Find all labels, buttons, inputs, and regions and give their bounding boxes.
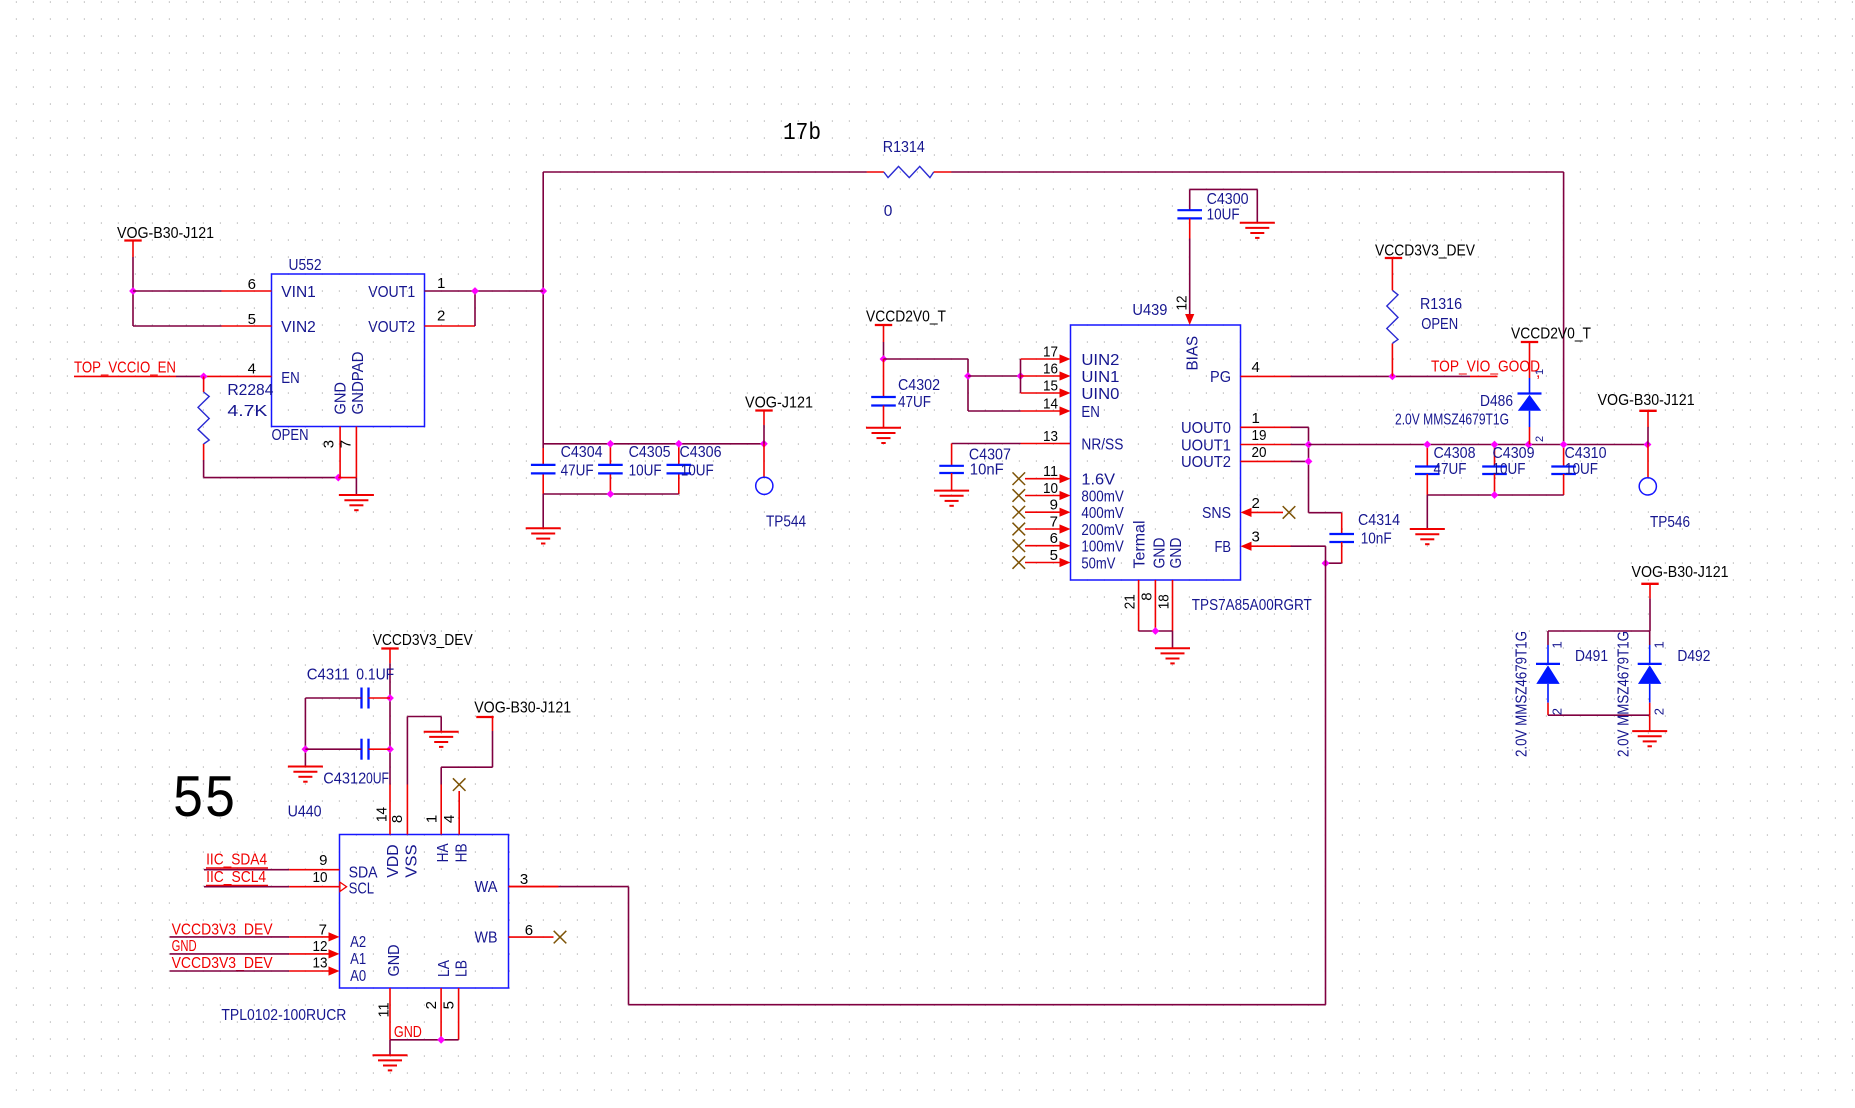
svg-text:SNS: SNS	[1202, 505, 1231, 522]
svg-text:1: 1	[1252, 410, 1260, 427]
svg-text:16: 16	[1043, 361, 1058, 378]
svg-text:800mV: 800mV	[1081, 488, 1124, 505]
svg-text:4: 4	[441, 815, 458, 823]
svg-text:VSS: VSS	[403, 844, 420, 877]
svg-text:D491: D491	[1575, 648, 1608, 665]
svg-text:VIN2: VIN2	[281, 319, 316, 336]
svg-text:GND: GND	[1152, 538, 1169, 569]
svg-text:GND: GND	[1168, 538, 1185, 569]
svg-text:19: 19	[1252, 427, 1267, 444]
svg-text:BIAS: BIAS	[1185, 336, 1202, 371]
svg-text:Termal: Termal	[1132, 521, 1149, 569]
svg-text:HA: HA	[435, 843, 452, 862]
svg-text:TP544: TP544	[766, 514, 806, 531]
svg-text:TP546: TP546	[1650, 514, 1690, 531]
svg-text:EN: EN	[281, 370, 300, 387]
svg-text:8: 8	[389, 815, 406, 823]
svg-text:WB: WB	[475, 930, 498, 947]
svg-text:HB: HB	[453, 843, 470, 862]
svg-text:VCCD3V3_DEV: VCCD3V3_DEV	[373, 632, 474, 649]
svg-text:13: 13	[1043, 428, 1058, 445]
svg-text:18: 18	[1156, 594, 1173, 609]
svg-text:2.0V MMSZ4679T1G: 2.0V MMSZ4679T1G	[1514, 631, 1531, 757]
svg-text:U440: U440	[288, 804, 322, 821]
svg-text:14: 14	[374, 807, 391, 822]
svg-text:GND: GND	[386, 945, 403, 977]
svg-text:0: 0	[884, 203, 893, 220]
svg-text:VCCD3V3_DEV: VCCD3V3_DEV	[1375, 243, 1476, 260]
svg-text:WA: WA	[475, 879, 498, 896]
svg-text:VIN1: VIN1	[281, 284, 316, 301]
svg-text:R1314: R1314	[883, 139, 925, 156]
svg-text:10UF: 10UF	[1565, 461, 1598, 478]
svg-text:1: 1	[1652, 641, 1667, 648]
svg-text:4: 4	[1252, 359, 1260, 376]
svg-text:UOUT0: UOUT0	[1181, 420, 1231, 437]
svg-text:D492: D492	[1677, 648, 1710, 665]
svg-text:VCCD3V3_DEV: VCCD3V3_DEV	[172, 922, 274, 939]
svg-text:SCL: SCL	[349, 881, 375, 898]
svg-text:7: 7	[319, 922, 327, 939]
svg-text:0UF: 0UF	[366, 771, 389, 788]
svg-text:OPEN: OPEN	[1421, 316, 1458, 333]
svg-text:OPEN: OPEN	[272, 427, 309, 444]
svg-text:U439: U439	[1132, 302, 1167, 319]
svg-text:VDD: VDD	[385, 844, 402, 877]
svg-text:10nF: 10nF	[970, 461, 1004, 478]
svg-text:C4300: C4300	[1207, 191, 1249, 208]
svg-text:5: 5	[1050, 547, 1058, 564]
svg-text:2: 2	[437, 308, 445, 325]
svg-text:17: 17	[1043, 344, 1058, 361]
svg-text:TPL0102-100RUCR: TPL0102-100RUCR	[221, 1007, 346, 1024]
svg-text:LA: LA	[436, 960, 453, 977]
svg-text:8: 8	[1139, 592, 1156, 600]
svg-text:12: 12	[313, 938, 328, 955]
svg-text:NR/SS: NR/SS	[1081, 436, 1123, 453]
svg-text:EN: EN	[1081, 404, 1100, 421]
svg-text:VOG-B30-J121: VOG-B30-J121	[1632, 564, 1729, 581]
svg-text:47UF: 47UF	[561, 463, 594, 480]
svg-text:10UF: 10UF	[681, 463, 714, 480]
svg-text:55: 55	[172, 767, 236, 835]
svg-text:VCCD2V0_T: VCCD2V0_T	[866, 309, 946, 326]
svg-text:VOG-B30-J121: VOG-B30-J121	[474, 700, 571, 717]
svg-text:VOUT2: VOUT2	[368, 319, 415, 336]
svg-text:A1: A1	[350, 951, 366, 968]
svg-text:SDA: SDA	[349, 865, 378, 882]
svg-text:GND: GND	[333, 382, 350, 415]
svg-text:11: 11	[1043, 463, 1058, 480]
svg-text:50mV: 50mV	[1081, 555, 1115, 572]
svg-text:A2: A2	[350, 934, 366, 951]
svg-text:2: 2	[423, 1001, 440, 1009]
svg-text:R2284: R2284	[227, 382, 273, 399]
svg-text:9: 9	[1050, 497, 1058, 514]
svg-text:FB: FB	[1215, 539, 1232, 556]
svg-text:400mV: 400mV	[1081, 505, 1124, 522]
svg-text:UIN0: UIN0	[1081, 386, 1119, 403]
svg-text:3: 3	[520, 871, 528, 888]
svg-text:6: 6	[525, 922, 533, 939]
svg-text:A0: A0	[350, 968, 366, 985]
svg-text:15: 15	[1043, 378, 1058, 395]
svg-text:2: 2	[1652, 708, 1667, 715]
svg-text:C4304: C4304	[561, 444, 603, 461]
svg-text:0.1UF: 0.1UF	[356, 667, 394, 684]
svg-text:3: 3	[1252, 529, 1260, 546]
svg-text:10nF: 10nF	[1361, 531, 1392, 548]
svg-text:13: 13	[313, 955, 328, 972]
svg-text:1: 1	[424, 815, 441, 823]
svg-text:U552: U552	[289, 257, 322, 274]
svg-text:C4306: C4306	[680, 444, 722, 461]
svg-text:5: 5	[248, 311, 256, 328]
svg-text:6: 6	[248, 276, 256, 293]
svg-text:10: 10	[1043, 480, 1058, 497]
svg-text:2: 2	[1550, 708, 1565, 715]
svg-text:200mV: 200mV	[1081, 522, 1124, 539]
svg-text:C4311: C4311	[307, 667, 350, 684]
svg-text:1: 1	[1550, 641, 1565, 648]
svg-text:VOUT1: VOUT1	[368, 284, 415, 301]
svg-text:2: 2	[1252, 495, 1260, 512]
svg-text:4.7K: 4.7K	[227, 403, 268, 420]
svg-text:9: 9	[319, 852, 327, 869]
svg-text:1: 1	[437, 275, 445, 292]
svg-text:GNDPAD: GNDPAD	[350, 352, 367, 415]
svg-text:12: 12	[1174, 296, 1191, 311]
svg-text:TPS7A85A00RGRT: TPS7A85A00RGRT	[1192, 597, 1312, 614]
svg-text:UIN2: UIN2	[1081, 352, 1119, 369]
svg-text:C4305: C4305	[629, 444, 671, 461]
svg-text:UOUT1: UOUT1	[1181, 437, 1231, 454]
svg-text:11: 11	[376, 1003, 393, 1018]
svg-text:GND: GND	[394, 1024, 422, 1041]
svg-text:10UF: 10UF	[629, 463, 662, 480]
svg-text:21: 21	[1122, 594, 1139, 609]
svg-text:R1316: R1316	[1420, 296, 1462, 313]
svg-text:10UF: 10UF	[1207, 207, 1240, 224]
svg-text:D486: D486	[1480, 393, 1513, 410]
svg-text:6: 6	[1050, 530, 1058, 547]
svg-text:20: 20	[1252, 444, 1267, 461]
svg-text:14: 14	[1043, 396, 1058, 413]
svg-text:UOUT2: UOUT2	[1181, 454, 1231, 471]
svg-text:100mV: 100mV	[1081, 539, 1124, 556]
svg-text:VOG-J121: VOG-J121	[745, 395, 813, 412]
svg-text:UIN1: UIN1	[1081, 369, 1119, 386]
svg-text:2.0V MMSZ4679T1G: 2.0V MMSZ4679T1G	[1616, 631, 1633, 757]
svg-text:2: 2	[1534, 436, 1546, 442]
svg-text:C4309: C4309	[1493, 445, 1535, 462]
svg-text:47UF: 47UF	[898, 394, 931, 411]
svg-text:GND: GND	[172, 938, 197, 955]
svg-text:5: 5	[440, 1001, 457, 1009]
svg-text:1: 1	[1534, 369, 1546, 375]
svg-text:10: 10	[313, 869, 328, 886]
svg-text:PG: PG	[1210, 369, 1231, 386]
svg-text:IIC_SCL4: IIC_SCL4	[206, 869, 266, 886]
svg-text:LB: LB	[454, 960, 471, 977]
svg-text:TOP_VIO_GOOD: TOP_VIO_GOOD	[1431, 359, 1540, 376]
svg-text:VCCD3V3_DEV: VCCD3V3_DEV	[172, 955, 274, 972]
svg-text:TOP_VCCIO_EN: TOP_VCCIO_EN	[74, 360, 176, 377]
svg-text:7: 7	[1050, 514, 1058, 531]
svg-text:C4302: C4302	[898, 377, 940, 394]
svg-text:VCCD2V0_T: VCCD2V0_T	[1511, 326, 1591, 343]
svg-text:C4312: C4312	[323, 771, 366, 788]
svg-text:1.6V: 1.6V	[1081, 472, 1115, 489]
svg-text:7: 7	[338, 440, 355, 448]
svg-text:17b: 17b	[783, 120, 821, 147]
svg-text:C4308: C4308	[1434, 445, 1476, 462]
svg-text:2.0V MMSZ4679T1G: 2.0V MMSZ4679T1G	[1395, 411, 1509, 428]
svg-text:47UF: 47UF	[1434, 461, 1467, 478]
svg-text:C4310: C4310	[1565, 445, 1607, 462]
svg-text:IIC_SDA4: IIC_SDA4	[206, 852, 267, 869]
svg-text:4: 4	[248, 361, 256, 378]
svg-text:10UF: 10UF	[1493, 461, 1526, 478]
svg-text:VOG-B30-J121: VOG-B30-J121	[1598, 392, 1695, 409]
svg-text:3: 3	[321, 440, 338, 448]
svg-text:C4314: C4314	[1358, 512, 1400, 529]
